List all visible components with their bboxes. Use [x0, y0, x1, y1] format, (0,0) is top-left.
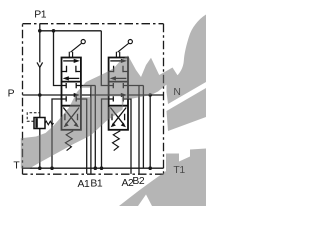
svg-text:B1: B1: [90, 179, 103, 190]
wire carryover to N: [128, 94, 164, 96]
wire A2 work line: [128, 99, 131, 174]
svg-text:T: T: [13, 161, 20, 172]
wire relief valve drain: [39, 129, 41, 169]
svg-text:P: P: [8, 89, 15, 100]
wire valve1 drain to tank: [52, 99, 62, 168]
svg-text:A1: A1: [78, 179, 91, 190]
wire P1 drop: [39, 24, 41, 95]
wire A1 work line: [81, 99, 87, 174]
junction dots: [38, 29, 152, 170]
svg-text:B2: B2: [132, 176, 145, 187]
wire carryover between valves: [81, 94, 109, 96]
spring return V1: [65, 131, 73, 151]
V2 box2 center position: [109, 83, 128, 102]
spring return V2: [113, 131, 121, 151]
lever actuator V1: [69, 40, 85, 58]
V1 box3 crossed arrows: [63, 108, 79, 125]
wire feed to valve1 upper-left port: [54, 31, 62, 86]
wire relief valve inlet: [39, 95, 41, 118]
wire B1 work line: [81, 86, 95, 174]
V2 box1 arrows and blocked ports: [109, 61, 128, 79]
wire tank line T: [23, 167, 164, 169]
wire feed to valve2 upper-left port: [101, 31, 108, 86]
V2 box3 crossed arrows: [110, 108, 126, 125]
watermark swoosh top-right: [21, 15, 206, 207]
wire top feed horizontal: [40, 30, 102, 32]
wire P port line: [23, 94, 62, 96]
V1 box2 center position: [62, 83, 81, 102]
watermark bottom-right band: [119, 149, 206, 207]
svg-text:P1: P1: [34, 9, 47, 20]
relief valve RV1: [27, 113, 53, 129]
envelope border (chain line): [23, 24, 164, 175]
directional valve V1 body: [62, 58, 81, 130]
lever actuator V2: [116, 40, 132, 58]
wire valve2 upper-right drop to tank line: [142, 86, 144, 169]
wire B2 work line: [128, 86, 143, 174]
wire N drop to tank line: [149, 95, 151, 168]
watermark right-middle stripe: [167, 88, 207, 131]
check valve CV1: [37, 62, 43, 67]
watermark central mountain band: [21, 56, 178, 169]
wire valve2 drain to tank: [102, 99, 109, 168]
wire valve1 upper-right drop to tank line: [94, 86, 96, 169]
V1 box1 arrows and blocked ports: [62, 61, 81, 79]
directional valve V2 body: [109, 58, 128, 130]
